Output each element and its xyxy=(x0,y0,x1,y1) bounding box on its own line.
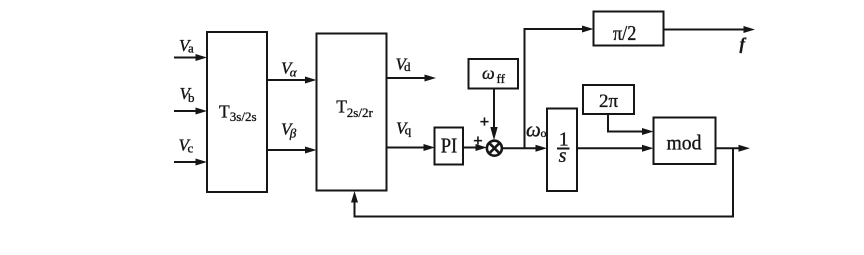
svg-text:+: + xyxy=(480,112,490,131)
label f xyxy=(740,34,747,53)
label T3s/2s xyxy=(219,101,257,124)
block PI xyxy=(435,128,464,165)
label Vd xyxy=(396,54,412,74)
svg-text:2π: 2π xyxy=(599,91,619,112)
label 1/s xyxy=(557,128,570,167)
label T2s/2r xyxy=(336,97,373,120)
svg-text:mod: mod xyxy=(667,131,702,155)
block 2pi xyxy=(583,85,634,114)
svg-text:d: d xyxy=(404,59,411,74)
svg-text:T: T xyxy=(219,101,230,121)
label Va xyxy=(179,36,194,56)
summing junction xyxy=(487,141,502,156)
wire 1/s to mod xyxy=(577,145,654,152)
wire Va input xyxy=(174,54,207,61)
wire omega_ff to summing junction xyxy=(490,89,497,141)
svg-text:q: q xyxy=(405,122,412,137)
wire branch up to pi/2 xyxy=(525,26,594,149)
block T2s/2r xyxy=(317,34,387,191)
svg-text:+: + xyxy=(473,131,483,150)
wire feedback to T2s/2r xyxy=(351,148,733,216)
wire Vd output xyxy=(387,75,437,82)
block mod xyxy=(654,118,716,165)
block T3s/2s xyxy=(207,32,267,192)
svg-text:f: f xyxy=(740,34,747,53)
svg-text:β: β xyxy=(289,126,297,141)
label pi/2 xyxy=(613,21,637,45)
svg-text:α: α xyxy=(290,64,298,79)
label Vq xyxy=(396,119,412,138)
label plus at PI to summer xyxy=(473,131,483,150)
svg-text:3s/2s: 3s/2s xyxy=(230,109,257,124)
label PI xyxy=(441,134,458,158)
label Vc xyxy=(179,135,194,155)
svg-text:ω: ω xyxy=(526,118,541,142)
svg-text:b: b xyxy=(188,90,195,105)
svg-text:T: T xyxy=(336,97,347,117)
block 1/s xyxy=(547,109,577,192)
block omega_ff xyxy=(469,59,519,89)
wire PI to summing junction xyxy=(463,144,487,151)
label omega_o xyxy=(526,118,547,142)
svg-text:c: c xyxy=(188,141,194,156)
label omega_ff xyxy=(482,63,506,86)
svg-text:o: o xyxy=(541,126,547,140)
svg-text:s: s xyxy=(559,145,567,167)
wire Vbeta xyxy=(267,147,317,154)
svg-text:a: a xyxy=(188,41,194,56)
wire omega_o to 1/s xyxy=(501,145,547,152)
label Vbeta xyxy=(281,119,297,140)
label plus at omega_ff to summer xyxy=(480,112,490,131)
wire Vb input xyxy=(174,108,207,115)
wire 2pi to mod xyxy=(608,114,654,135)
svg-text:PI: PI xyxy=(441,134,458,158)
block pi/2 xyxy=(594,12,664,46)
svg-text:ω: ω xyxy=(482,63,495,83)
wire Vc input xyxy=(174,159,207,166)
wire mod output xyxy=(716,145,751,152)
label Valpha xyxy=(281,58,298,79)
svg-text:ff: ff xyxy=(497,71,506,86)
wire Vq to PI xyxy=(387,144,436,151)
wire pi/2 output f xyxy=(664,26,756,33)
label 2pi xyxy=(599,91,619,112)
label Vb xyxy=(180,84,195,105)
label mod xyxy=(667,131,702,155)
wire Valpha xyxy=(267,77,317,84)
svg-text:2s/2r: 2s/2r xyxy=(347,105,374,120)
svg-text:π/2: π/2 xyxy=(613,21,637,45)
